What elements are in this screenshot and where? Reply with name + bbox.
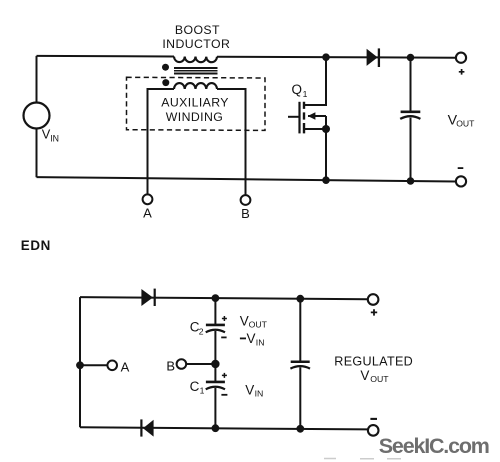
svg-text:A: A [121,360,130,375]
svg-text:INDUCTOR: INDUCTOR [162,37,230,51]
svg-text:1: 1 [303,89,308,99]
svg-text:OUT: OUT [370,374,389,384]
svg-text:IN: IN [256,337,265,347]
svg-text:OUT: OUT [456,118,475,128]
svg-text:C: C [190,379,200,394]
svg-text:Q: Q [292,82,303,97]
svg-text:AUXILIARY: AUXILIARY [161,96,229,110]
svg-text:V: V [247,331,256,346]
svg-text:A: A [143,206,152,221]
svg-text:V: V [245,383,254,398]
svg-text:IN: IN [255,389,264,399]
svg-text:BOOST: BOOST [175,23,220,37]
svg-text:EDN: EDN [21,238,51,253]
svg-text:B: B [166,358,175,373]
svg-text:1: 1 [200,385,205,395]
svg-text:B: B [241,206,250,221]
svg-text:REGULATED: REGULATED [334,355,413,369]
svg-text:2: 2 [199,326,204,336]
svg-text:OUT: OUT [249,320,268,330]
svg-text:V: V [240,313,249,328]
svg-text:V: V [360,368,369,383]
svg-text:WINDING: WINDING [166,110,223,124]
svg-text:IN: IN [50,133,59,143]
svg-text:SeekIC.com: SeekIC.com [379,434,489,458]
